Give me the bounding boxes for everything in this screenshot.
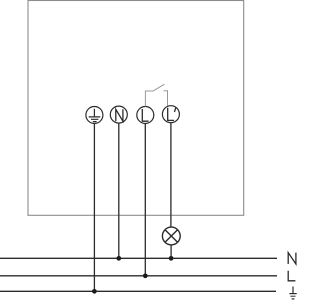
relay switch contact between L and L' <box>145 84 167 106</box>
wire PE terminal to PE bus <box>93 124 95 292</box>
junction lamp / N bus <box>169 256 174 261</box>
terminal N <box>110 106 127 123</box>
label L (bus) <box>288 271 295 281</box>
enclosure box <box>28 1 244 216</box>
junction L terminal / L bus <box>143 273 148 278</box>
L bus line <box>0 275 277 277</box>
wire L' terminal to lamp <box>170 123 172 227</box>
junction PE terminal / PE bus <box>92 289 97 294</box>
terminal L' <box>162 106 179 123</box>
PE bus line <box>0 290 276 292</box>
terminal PE (earth) <box>86 107 103 124</box>
ground symbol (bus label) <box>289 287 296 299</box>
wire L terminal to L bus <box>144 124 146 276</box>
wire lamp to N bus <box>170 245 172 258</box>
wire N terminal to N bus <box>118 123 120 258</box>
terminal L <box>137 107 154 124</box>
label N (bus) <box>288 253 296 264</box>
junction N terminal / N bus <box>116 256 121 261</box>
N bus line <box>0 257 277 259</box>
lamp E1 <box>162 227 180 245</box>
